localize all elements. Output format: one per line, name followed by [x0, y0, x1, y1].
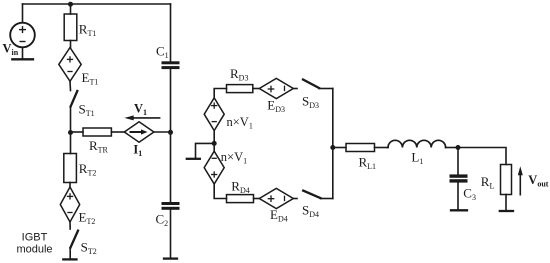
- wire node E to RL: [458, 148, 506, 165]
- node C junction: [212, 141, 217, 146]
- wire ET2 to ST2: [69, 222, 71, 229]
- wire node C to ground: [196, 143, 215, 158]
- svg-text:C2: C2: [156, 212, 169, 229]
- ED4 plus sign: [268, 196, 273, 201]
- ground for C3: [451, 209, 467, 211]
- wire SD4 to right column: [321, 198, 333, 200]
- wire middle column upper: [170, 4, 172, 61]
- dependent source ED3: [259, 78, 293, 98]
- svg-text:RTR: RTR: [89, 138, 109, 155]
- ET1 plus sign: [68, 57, 73, 62]
- wire ED4 to SD4: [293, 198, 297, 200]
- wire node A to RT2: [70, 133, 72, 154]
- node E junction: [456, 145, 461, 150]
- ET2 minus sign: [68, 212, 72, 214]
- ground for node C: [187, 158, 200, 160]
- wire SD3 to right column: [319, 88, 333, 90]
- wire node D to RL1: [333, 147, 346, 149]
- node top junction: [68, 2, 73, 7]
- ground for Vin: [12, 58, 33, 60]
- switch SD3: [303, 80, 319, 89]
- svg-text:n×V1: n×V1: [227, 115, 253, 131]
- wire RL1 to L1: [375, 147, 389, 149]
- dependent source nxV1 lower: [204, 151, 224, 184]
- arrow Vout annotation: [518, 166, 523, 195]
- arrow V1 annotation: [124, 115, 159, 120]
- node A junction: [68, 130, 73, 135]
- wire ST1 to node A: [70, 107, 72, 133]
- dependent source nxV1 upper: [204, 98, 224, 131]
- nxV1 upper plus sign: [212, 103, 217, 108]
- node D junction: [330, 145, 335, 150]
- resistor RT1: [64, 14, 77, 41]
- wire ET1 to ST1: [69, 81, 72, 90]
- Vin plus sign: [20, 27, 26, 33]
- ED3 minus sign vertical: [284, 86, 286, 90]
- wire middle column lower: [170, 210, 172, 259]
- svg-text:SD3: SD3: [302, 94, 319, 111]
- wire I1 to node B: [154, 131, 171, 133]
- voltage source Vin: [10, 23, 35, 48]
- dependent source ET1: [59, 48, 81, 82]
- wire between nxV1 sources: [213, 131, 215, 152]
- svg-text:L1: L1: [411, 150, 423, 167]
- wire C3 to ground: [457, 183, 459, 211]
- wire junction to RT1: [70, 4, 72, 14]
- svg-text:module: module: [16, 244, 52, 256]
- svg-text:IGBT: IGBT: [22, 231, 48, 243]
- ED4 minus sign vertical: [284, 196, 286, 200]
- resistor RTR: [83, 128, 111, 136]
- dependent source ET2: [60, 187, 79, 222]
- svg-text:RL1: RL1: [359, 154, 377, 171]
- wire right column: [332, 89, 334, 199]
- resistor RL: [501, 165, 512, 195]
- Vin minus sign: [20, 41, 25, 43]
- resistor RT2: [64, 154, 77, 183]
- svg-text:ET1: ET1: [82, 70, 99, 87]
- svg-text:Vout: Vout: [528, 173, 548, 189]
- svg-text:ST2: ST2: [81, 239, 97, 256]
- svg-text:V1: V1: [134, 102, 147, 118]
- ED3 plus sign: [268, 86, 273, 91]
- svg-text:SD4: SD4: [302, 202, 319, 219]
- current source I1: [124, 122, 154, 142]
- svg-text:I1: I1: [133, 142, 142, 158]
- wire ST2 to ground: [69, 248, 71, 259]
- resistor RD3: [227, 85, 253, 93]
- svg-text:Vin: Vin: [3, 42, 19, 58]
- resistor RL1: [346, 144, 375, 152]
- wire Vin top lead: [22, 4, 24, 23]
- nxV1 upper minus sign: [212, 121, 216, 123]
- svg-text:RT1: RT1: [79, 22, 97, 39]
- inductor L1: [388, 140, 446, 147]
- wire node E to C3: [457, 148, 459, 175]
- wire RL to ground: [505, 195, 507, 212]
- wire RT2 to ET2: [69, 183, 71, 188]
- resistor RD4: [227, 195, 254, 203]
- svg-text:ET2: ET2: [79, 210, 96, 227]
- node B junction: [168, 130, 173, 135]
- svg-text:C1: C1: [156, 44, 169, 61]
- switch ST1: [71, 91, 78, 107]
- ground for RL: [500, 210, 513, 212]
- svg-text:RD3: RD3: [230, 66, 248, 83]
- wire middle column mid: [170, 69, 172, 202]
- capacitor C1: [162, 61, 180, 69]
- ground for ST2: [63, 258, 76, 260]
- nxV1 lower plus sign: [212, 172, 217, 177]
- svg-text:ED4: ED4: [270, 207, 288, 224]
- svg-text:RT2: RT2: [79, 161, 97, 178]
- capacitor C3: [450, 174, 468, 182]
- wire RD4 to ED4: [254, 198, 260, 200]
- I1 arrow: [131, 129, 148, 134]
- wire top bus: [23, 3, 171, 5]
- svg-text:RD4: RD4: [231, 178, 249, 195]
- ET1 minus sign: [68, 71, 72, 73]
- svg-text:ED3: ED3: [267, 98, 285, 115]
- wire nxV1 upper to RD3: [214, 89, 226, 98]
- wire RT1 to ET1: [70, 41, 72, 48]
- svg-text:C3: C3: [463, 186, 476, 203]
- switch ST2: [70, 231, 78, 248]
- capacitor C2: [162, 202, 180, 210]
- ground for middle column: [164, 257, 177, 259]
- ET2 plus sign: [68, 194, 73, 199]
- wire node A to RTR: [71, 131, 84, 133]
- switch SD4: [303, 191, 320, 199]
- wire Vin bottom lead: [22, 47, 24, 59]
- svg-text:n×V1: n×V1: [221, 150, 247, 166]
- wire nxV1 lower to RD4: [214, 184, 226, 199]
- wire ED3 to SD3: [293, 88, 297, 90]
- wire L1 to node E: [446, 147, 458, 149]
- dependent source ED4: [259, 188, 293, 208]
- wire RD3 to ED3: [253, 88, 259, 90]
- svg-text:RL: RL: [481, 174, 495, 191]
- nxV1 lower minus sign: [212, 157, 216, 159]
- svg-text:ST1: ST1: [79, 102, 95, 119]
- wire RTR to I1: [111, 131, 124, 133]
